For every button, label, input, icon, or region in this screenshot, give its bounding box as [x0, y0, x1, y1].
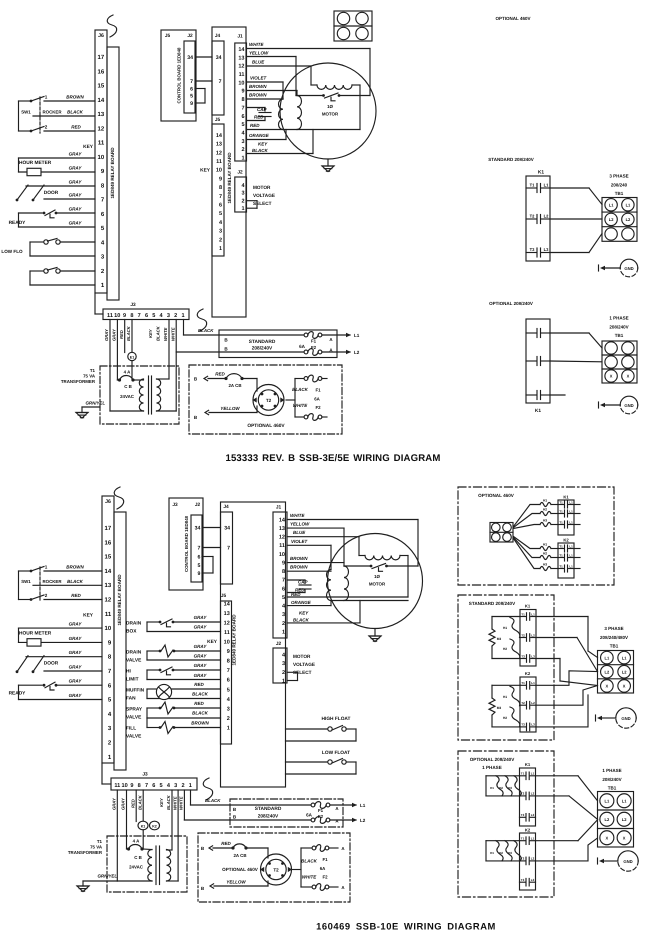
svg-text:L1: L1: [622, 655, 627, 660]
fuse F2 WHITE (bottom optional): [301, 875, 345, 891]
svg-text:BROWN: BROWN: [249, 93, 267, 98]
svg-text:BLACK: BLACK: [166, 794, 171, 810]
svg-text:208/240V: 208/240V: [258, 814, 279, 820]
svg-text:8: 8: [219, 185, 222, 191]
svg-text:X: X: [610, 374, 613, 379]
connector J2 motor voltage select (top): [235, 170, 275, 213]
svg-text:L1: L1: [531, 837, 535, 841]
motor bottom bus (bottom): [331, 600, 408, 602]
svg-text:F1: F1: [322, 857, 328, 862]
svg-text:1 PHASE: 1 PHASE: [609, 316, 628, 321]
svg-text:15: 15: [105, 554, 112, 561]
svg-text:9: 9: [190, 101, 193, 107]
svg-text:10: 10: [216, 168, 222, 174]
svg-text:BROWN: BROWN: [290, 556, 308, 561]
svg-text:GRAY: GRAY: [194, 644, 208, 649]
svg-text:208/240/480V: 208/240/480V: [600, 635, 628, 640]
svg-text:TB1: TB1: [608, 786, 617, 791]
wire control-34 to J4-34 (bottom): [203, 527, 221, 529]
YELLOW lead (bottom optional): [201, 880, 268, 892]
label STANDARD 208/240V (top right): [488, 157, 533, 162]
svg-text:1: 1: [241, 206, 244, 212]
svg-text:4 A: 4 A: [133, 839, 140, 844]
svg-text:9: 9: [198, 571, 201, 577]
svg-text:RED: RED: [221, 841, 231, 846]
svg-text:10: 10: [279, 552, 285, 558]
overload heaters H1 H2 H3 (460V K2): [540, 542, 558, 570]
svg-text:K1: K1: [538, 170, 544, 176]
terminal block 2x2 (top): [334, 11, 372, 41]
svg-text:L2: L2: [531, 633, 535, 637]
label KEY at J6-11 (bottom): [83, 613, 94, 619]
svg-text:1ED849 RELAY BOARD: 1ED849 RELAY BOARD: [227, 152, 232, 204]
svg-text:BLACK: BLACK: [252, 148, 268, 153]
ground GND (bottom standard): [596, 708, 637, 728]
svg-text:GND: GND: [624, 403, 633, 408]
svg-text:J5: J5: [221, 593, 227, 599]
svg-text:14: 14: [224, 601, 231, 607]
svg-text:KEY: KEY: [207, 639, 218, 645]
fuse F2 (bottom standard): [311, 814, 330, 823]
svg-text:12: 12: [105, 597, 112, 604]
svg-text:HI: HI: [126, 669, 131, 675]
svg-text:208/240: 208/240: [611, 183, 628, 188]
svg-text:KEY: KEY: [258, 142, 268, 147]
svg-text:WHITE: WHITE: [293, 403, 308, 408]
fuse F2 (top standard): [176, 345, 322, 355]
svg-text:2: 2: [227, 716, 230, 722]
svg-text:KEY: KEY: [159, 797, 164, 807]
svg-text:8: 8: [130, 313, 133, 319]
rocker switch SW1 (bottom): [19, 565, 103, 602]
svg-text:L1: L1: [622, 798, 627, 803]
wire J3-10 GRAY (bottom): [121, 790, 127, 849]
svg-text:GRAY: GRAY: [69, 693, 83, 698]
svg-text:KEY: KEY: [148, 328, 153, 338]
svg-text:H3: H3: [508, 851, 512, 855]
svg-text:13: 13: [105, 582, 112, 589]
svg-text:F1: F1: [315, 388, 321, 393]
svg-text:34: 34: [216, 55, 222, 61]
svg-text:H2: H2: [499, 851, 503, 855]
svg-text:3 PHASE: 3 PHASE: [609, 174, 628, 179]
fuse F1 (bottom standard): [311, 802, 330, 813]
svg-text:VIOLET: VIOLET: [291, 539, 309, 544]
svg-text:16: 16: [105, 539, 112, 546]
contactor K1 (top optional 208/240): [526, 319, 550, 414]
svg-text:H1: H1: [490, 786, 494, 790]
svg-text:BROWN: BROWN: [66, 95, 84, 100]
svg-text:L3: L3: [531, 654, 535, 658]
svg-text:160469 SSB-10E WIRING DIAGRAM: 160469 SSB-10E WIRING DIAGRAM: [316, 921, 496, 932]
door switches (bottom): [16, 650, 102, 673]
label BLACK at J3-4: [156, 325, 161, 341]
svg-text:3: 3: [241, 191, 244, 197]
svg-text:X: X: [623, 835, 626, 840]
svg-text:GRN/YEL: GRN/YEL: [85, 401, 105, 406]
wire J3-9 RED (bottom): [130, 790, 136, 822]
svg-text:4 A: 4 A: [124, 370, 131, 375]
svg-text:6: 6: [282, 586, 285, 592]
svg-text:T1: T1: [521, 612, 525, 616]
svg-text:3: 3: [167, 313, 170, 319]
svg-text:T3: T3: [530, 247, 536, 252]
svg-text:L2: L2: [622, 669, 627, 674]
svg-text:H2: H2: [543, 507, 547, 511]
svg-text:L1: L1: [609, 203, 614, 208]
svg-text:X: X: [623, 684, 626, 689]
svg-text:16: 16: [98, 68, 105, 75]
hour meter: [19, 152, 96, 176]
svg-text:GRAY: GRAY: [69, 665, 83, 670]
svg-text:J5: J5: [215, 117, 221, 123]
svg-text:TB1: TB1: [610, 644, 619, 649]
svg-text:T1: T1: [559, 565, 563, 569]
wire J3-4 BLACK to secondary (bottom): [166, 790, 172, 850]
wire J1-8 BROWN to main winding: [247, 93, 284, 100]
svg-text:C B: C B: [134, 855, 142, 860]
ready switch: [9, 207, 95, 228]
fill valve: [126, 718, 221, 740]
svg-text:STANDARD 208/240V: STANDARD 208/240V: [469, 601, 516, 606]
wire J3-2 WHITE to secondary: [170, 320, 176, 412]
svg-text:OPTIONAL 460V: OPTIONAL 460V: [478, 493, 515, 498]
optional 208/240V 1 phase box (bottom right): [458, 751, 554, 897]
svg-text:9: 9: [241, 89, 244, 95]
door switches: [16, 180, 95, 202]
svg-text:6: 6: [152, 783, 155, 789]
svg-text:F1: F1: [318, 808, 324, 813]
svg-text:2: 2: [45, 125, 48, 130]
svg-text:13: 13: [238, 55, 244, 61]
svg-text:H2: H2: [503, 716, 507, 720]
svg-text:J2: J2: [195, 502, 201, 508]
low float switch: [286, 750, 357, 774]
ground GND (top standard): [599, 259, 638, 277]
fuse F1 6A BLACK (top optional): [292, 375, 327, 401]
svg-text:X: X: [606, 835, 609, 840]
drain box switch: [126, 615, 221, 634]
svg-text:10: 10: [224, 640, 230, 646]
svg-text:3: 3: [219, 229, 222, 235]
svg-text:J4: J4: [223, 504, 229, 510]
svg-text:H3: H3: [543, 518, 547, 522]
svg-text:GRAY: GRAY: [69, 221, 83, 226]
svg-text:M3: M3: [497, 706, 502, 710]
wire J1-2 KEY BLACK: [247, 130, 314, 154]
standard 208/240V fuse box (top): [219, 330, 337, 358]
capacitor CAP (bottom motor): [287, 580, 311, 593]
svg-text:12: 12: [98, 125, 105, 132]
svg-text:BROWN: BROWN: [290, 565, 308, 570]
svg-text:2A CB: 2A CB: [228, 383, 241, 388]
svg-text:L2: L2: [531, 701, 535, 705]
svg-text:L1: L1: [569, 545, 573, 549]
svg-text:H1: H1: [503, 695, 507, 699]
svg-text:RED: RED: [250, 123, 260, 128]
standard 208/240V box (bottom right): [458, 595, 554, 740]
YELLOW lead (top optional): [194, 406, 257, 420]
wire control-7 to J4-7 (bottom): [203, 547, 221, 549]
label OPTIONAL 208/240V (top right): [489, 301, 533, 306]
svg-text:24VAC: 24VAC: [120, 394, 135, 399]
svg-text:BLACK: BLACK: [126, 325, 131, 341]
svg-text:5: 5: [219, 211, 222, 217]
title 160469: [316, 921, 496, 932]
svg-text:WHITE: WHITE: [172, 796, 177, 810]
svg-text:READY: READY: [9, 220, 27, 226]
fuse F1 6A BLACK (bottom optional): [301, 845, 345, 871]
svg-text:KEY: KEY: [83, 144, 94, 150]
wires K2 to TB1 (bottom standard): [536, 671, 598, 727]
svg-text:MOTOR: MOTOR: [293, 654, 311, 659]
svg-text:7: 7: [145, 783, 148, 789]
svg-text:BLUE: BLUE: [293, 530, 306, 535]
svg-text:YELLOW: YELLOW: [220, 406, 240, 411]
wire J1-12 BLUE (bottom motor): [287, 530, 365, 555]
svg-text:L2: L2: [626, 217, 631, 222]
wires K1 to TB1 (top 1 phase): [550, 333, 602, 395]
svg-text:DRAIN: DRAIN: [126, 650, 142, 656]
svg-text:7: 7: [138, 313, 141, 319]
contactor K1 (top standard): [526, 170, 550, 262]
svg-text:GRAY: GRAY: [69, 636, 83, 641]
transformer T2 (bottom optional 460V): [260, 854, 292, 885]
svg-text:208/240V: 208/240V: [609, 325, 628, 330]
svg-text:1: 1: [219, 246, 222, 252]
svg-text:75 VA: 75 VA: [90, 845, 103, 850]
svg-text:L2: L2: [531, 792, 535, 796]
svg-text:BLACK: BLACK: [198, 328, 214, 333]
svg-text:F2: F2: [322, 875, 328, 880]
svg-text:13: 13: [224, 611, 230, 617]
optional 460V box (bottom right): [458, 487, 614, 585]
svg-text:3: 3: [241, 139, 244, 145]
svg-text:WHITE: WHITE: [163, 327, 168, 341]
svg-text:75 VA: 75 VA: [83, 374, 96, 379]
fuse F1 (top standard): [304, 332, 322, 344]
svg-text:RED: RED: [130, 799, 135, 808]
svg-text:ORANGE: ORANGE: [249, 133, 270, 138]
svg-text:KEY: KEY: [200, 168, 211, 174]
svg-text:6A: 6A: [306, 813, 313, 818]
svg-text:1ED849 RELAY BOARD: 1ED849 RELAY BOARD: [117, 574, 122, 626]
terminal block TB1 3 phase 208/240 (top): [602, 174, 637, 242]
svg-text:J2: J2: [276, 641, 282, 647]
svg-text:H1: H1: [543, 542, 547, 546]
wire J3-10 GRAY to fuse: [112, 320, 118, 381]
svg-text:E1: E1: [130, 355, 134, 359]
svg-text:1: 1: [45, 565, 48, 570]
svg-text:8: 8: [227, 659, 230, 665]
connector J5 (top relay board lower strip): [212, 117, 224, 256]
svg-text:GRAY: GRAY: [69, 679, 83, 684]
cable break squiggle right of J3 (bottom): [203, 778, 212, 800]
ground GND (bottom optional): [598, 851, 639, 871]
svg-text:RED: RED: [254, 115, 264, 120]
svg-text:3: 3: [282, 612, 285, 618]
wire J1-4 ORANGE (bottom motor): [287, 600, 331, 606]
jumper J2 pins 2-1 (bottom): [287, 672, 298, 680]
wire J1-10 VIOLET to main winding: [247, 76, 284, 100]
svg-text:11: 11: [114, 783, 120, 789]
svg-text:GRAY: GRAY: [69, 180, 83, 185]
svg-text:K2: K2: [152, 824, 157, 828]
svg-text:14: 14: [238, 47, 245, 53]
relay board outline 1ED849 (bottom): [114, 512, 126, 770]
svg-text:LIMIT: LIMIT: [126, 677, 139, 683]
wire J3-11 GRAY (bottom): [112, 790, 118, 881]
svg-text:7: 7: [241, 105, 244, 111]
svg-text:BLACK: BLACK: [137, 794, 142, 810]
rocker switch SW1: [19, 95, 96, 134]
fuse C B 4A (top transformer primary): [117, 370, 134, 400]
svg-text:17: 17: [105, 525, 112, 532]
svg-text:L1: L1: [569, 521, 573, 525]
svg-text:T3: T3: [521, 723, 525, 727]
svg-text:L1: L1: [569, 501, 573, 505]
svg-text:GRAY: GRAY: [194, 615, 208, 620]
svg-text:3: 3: [174, 783, 177, 789]
optional 460V box (bottom middle): [198, 833, 350, 902]
label OPTIONAL 460V (top right): [496, 16, 531, 21]
contactor K1 (bottom optional 208/240): [520, 762, 536, 826]
svg-text:11: 11: [105, 611, 112, 618]
svg-text:13: 13: [279, 526, 285, 532]
svg-text:J6: J6: [98, 33, 104, 39]
svg-text:OPTIONAL 460V: OPTIONAL 460V: [496, 16, 531, 21]
svg-text:GRAY: GRAY: [69, 193, 83, 198]
coil M and heaters (bottom standard K2): [489, 685, 520, 727]
fuse F2 WHITE (top optional): [293, 403, 327, 420]
jumper loop control pins 6-9: [195, 89, 205, 104]
svg-text:SW1: SW1: [21, 110, 31, 115]
svg-text:BOX: BOX: [126, 629, 137, 635]
wire J6 to J3: [95, 293, 103, 314]
svg-text:BLACK: BLACK: [192, 692, 208, 697]
wire J1-9 BROWN to main winding: [247, 84, 298, 91]
svg-text:8: 8: [241, 97, 244, 103]
svg-text:T2: T2: [273, 868, 279, 873]
svg-text:K2: K2: [563, 538, 569, 543]
connector J5 (bottom): [221, 593, 232, 744]
cable break squiggle right of J3 (top): [197, 309, 206, 331]
svg-text:9: 9: [227, 649, 230, 655]
wire J3-1 BLACK to standard box L1: [184, 320, 307, 336]
cable break squiggle at J6 top (bottom): [114, 487, 123, 509]
svg-text:BLACK: BLACK: [292, 387, 308, 392]
svg-text:7: 7: [219, 79, 222, 85]
svg-text:VOLTAGE: VOLTAGE: [253, 193, 275, 198]
svg-text:FAN: FAN: [126, 696, 136, 702]
svg-text:2: 2: [219, 237, 222, 243]
wire J1-10 VIOLET (bottom motor): [287, 539, 331, 570]
svg-text:T3: T3: [521, 878, 525, 882]
svg-text:HOUR METER: HOUR METER: [19, 160, 52, 166]
svg-text:14: 14: [216, 133, 223, 139]
wire SW1 to J6-12 RED: [44, 125, 95, 132]
connector J1 (bottom): [273, 505, 287, 639]
svg-text:T1: T1: [559, 554, 563, 558]
svg-text:KEY: KEY: [83, 613, 94, 619]
wire J1-14 WHITE (bottom motor): [287, 513, 418, 566]
svg-text:KEY: KEY: [299, 611, 309, 616]
svg-text:C B: C B: [124, 384, 132, 389]
svg-text:SW1: SW1: [21, 579, 31, 584]
svg-text:F2: F2: [311, 345, 317, 350]
wire J1-9 BROWN (bottom motor): [287, 556, 344, 563]
svg-text:12: 12: [279, 535, 285, 541]
motor ground (bottom): [369, 629, 381, 642]
svg-text:OPTIONAL 208/240V: OPTIONAL 208/240V: [489, 301, 533, 306]
svg-text:7: 7: [282, 578, 285, 584]
svg-text:L2: L2: [605, 669, 610, 674]
wire control-7 to J4-7: [196, 80, 212, 82]
svg-text:STANDARD: STANDARD: [249, 339, 276, 345]
wires K1 to TB1 (bottom standard): [536, 617, 598, 686]
svg-text:6: 6: [190, 87, 193, 93]
svg-text:CAP: CAP: [257, 107, 267, 112]
overload heaters H1 H2 H3 (460V K1): [540, 498, 558, 526]
main winding coils (bottom motor): [327, 566, 349, 601]
wire J1-13 YELLOW to motor switch left: [247, 51, 297, 96]
svg-text:3: 3: [227, 706, 230, 712]
svg-text:T1: T1: [559, 521, 563, 525]
svg-text:10: 10: [114, 313, 120, 319]
svg-text:L1: L1: [531, 612, 535, 616]
svg-text:1: 1: [181, 313, 184, 319]
svg-text:BLACK: BLACK: [293, 618, 309, 623]
svg-text:DRAIN: DRAIN: [126, 621, 142, 627]
transformer T1 75VA (top): [61, 366, 179, 424]
wires K1 to TB1 (top 3 phase): [550, 188, 602, 253]
svg-text:HOUR METER: HOUR METER: [19, 631, 52, 637]
svg-text:L2: L2: [544, 214, 550, 219]
svg-text:7: 7: [190, 79, 193, 85]
label KEY at J3-5 (bottom): [159, 797, 164, 807]
wire SW1 to J6-13 BLACK: [67, 110, 83, 115]
svg-text:24VAC: 24VAC: [129, 865, 144, 870]
svg-text:34: 34: [224, 526, 230, 532]
svg-text:K2: K2: [525, 828, 531, 833]
svg-text:J1: J1: [276, 505, 282, 511]
spray valve: [126, 701, 221, 720]
svg-text:T1: T1: [559, 501, 563, 505]
svg-text:RED: RED: [71, 125, 81, 130]
svg-text:11: 11: [279, 543, 285, 549]
wires terminal block to K2 fuses: [514, 537, 541, 569]
svg-text:DOOR: DOOR: [44, 190, 59, 196]
svg-text:TRANSFORMER: TRANSFORMER: [68, 850, 103, 855]
transformer T1 75VA (bottom): [68, 836, 187, 892]
wire J1-2 KEY BLACK (bottom motor): [287, 601, 360, 623]
svg-text:J3: J3: [130, 302, 136, 308]
svg-text:6A: 6A: [314, 397, 320, 402]
svg-text:CONTROL BOARD 1ED848: CONTROL BOARD 1ED848: [184, 515, 189, 572]
svg-text:RED: RED: [119, 330, 124, 339]
T2 secondary bus (top optional): [286, 379, 295, 418]
svg-text:J1: J1: [237, 34, 243, 40]
svg-text:2: 2: [174, 313, 177, 319]
svg-text:T1: T1: [521, 681, 525, 685]
svg-text:READY: READY: [9, 691, 27, 697]
svg-text:WHITE: WHITE: [170, 327, 175, 341]
svg-text:RED: RED: [194, 701, 204, 706]
svg-text:8: 8: [282, 569, 285, 575]
relay board outline 1ED849 (top): [107, 47, 119, 300]
svg-text:1ED849 RELAY BOARD: 1ED849 RELAY BOARD: [110, 147, 115, 199]
svg-text:6: 6: [198, 555, 201, 561]
